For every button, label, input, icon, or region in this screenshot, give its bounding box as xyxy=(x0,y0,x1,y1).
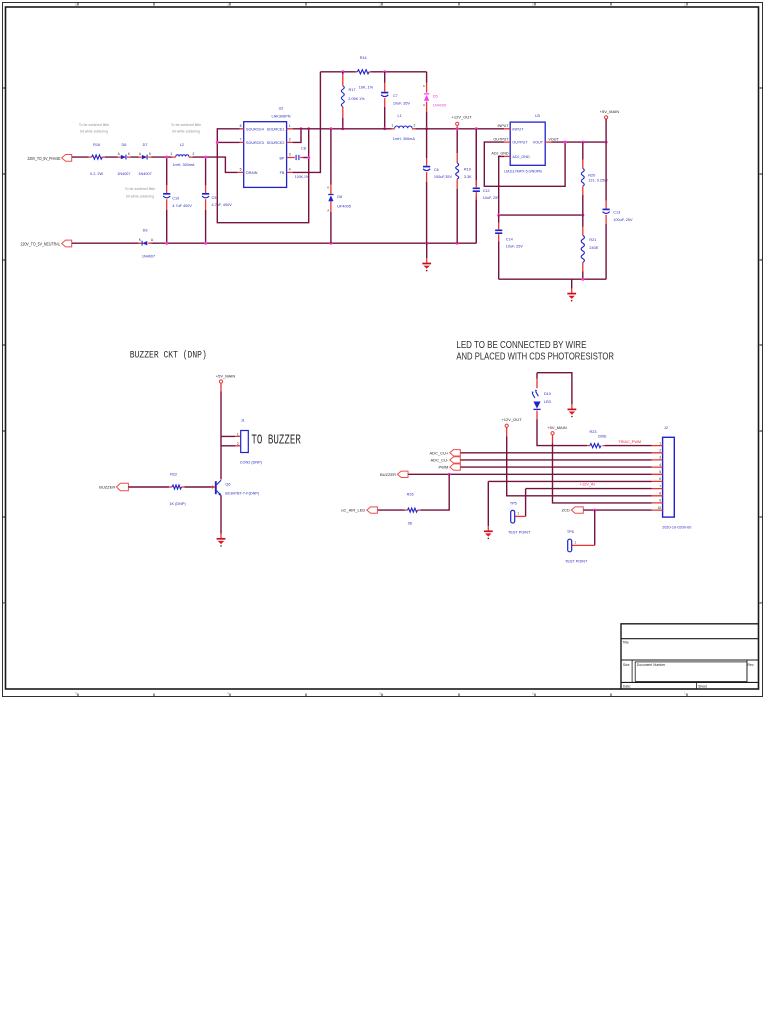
junction rail-C7 xyxy=(383,70,386,73)
svg-text:4.7uF, 400V: 4.7uF, 400V xyxy=(212,203,233,207)
junction C7 bottom xyxy=(383,127,386,130)
svg-text:2: 2 xyxy=(532,692,534,696)
wire led to r23 row xyxy=(537,420,652,446)
junction rail-R19 xyxy=(456,127,459,130)
capacitor C8 xyxy=(293,146,309,160)
svg-text:10K, 1%: 10K, 1% xyxy=(359,86,374,90)
svg-text:1: 1 xyxy=(517,512,519,516)
power +12V_OUT led section xyxy=(501,417,522,427)
resistor R22 xyxy=(169,473,186,506)
svg-text:2: 2 xyxy=(192,152,194,156)
capacitor C9 xyxy=(202,157,232,243)
svg-text:121, 0.25W: 121, 0.25W xyxy=(588,179,608,183)
port BUZZER led section xyxy=(380,471,408,477)
junction neutral-C9 xyxy=(204,242,207,245)
junction rail-R17 xyxy=(341,70,344,73)
resistor R26 xyxy=(405,493,421,526)
capacitor C13 xyxy=(603,142,633,279)
svg-text:C6: C6 xyxy=(434,168,439,172)
svg-text:OUTPUT: OUTPUT xyxy=(512,141,528,145)
svg-text:2: 2 xyxy=(237,442,239,446)
svg-text:3: 3 xyxy=(379,692,381,696)
svg-text:TEST POINT: TEST POINT xyxy=(508,531,531,535)
svg-text:1N4005: 1N4005 xyxy=(433,104,446,108)
svg-text:Size: Size xyxy=(623,663,630,667)
svg-text:3: 3 xyxy=(659,456,661,460)
svg-text:240E: 240E xyxy=(589,246,598,250)
svg-text:R23: R23 xyxy=(590,430,597,434)
junction source1-bp vertical xyxy=(307,127,310,130)
svg-text:3.3K: 3.3K xyxy=(464,175,472,179)
diode D5 xyxy=(423,72,446,129)
svg-text:D10: D10 xyxy=(544,392,551,396)
svg-text:K: K xyxy=(139,238,142,242)
svg-text:1K (DNP): 1K (DNP) xyxy=(169,502,186,506)
regulator U3 LM1117 xyxy=(491,114,559,174)
wire top rail xyxy=(320,71,426,73)
junction D5 bottom xyxy=(425,127,428,130)
svg-text:bit while soldering: bit while soldering xyxy=(172,129,200,133)
svg-text:C13: C13 xyxy=(613,210,620,214)
diode D6 xyxy=(117,143,131,176)
junction neutral-C10 xyxy=(165,242,168,245)
svg-text:DRAIN: DRAIN xyxy=(246,171,258,175)
svg-text:Sheet: Sheet xyxy=(698,684,707,688)
svg-text:1: 1 xyxy=(684,692,686,696)
svg-text:U3: U3 xyxy=(535,114,540,118)
svg-text:To be soldered little: To be soldered little xyxy=(125,187,155,191)
junction vout-C13 xyxy=(605,141,608,144)
svg-text:LM1117MPX-5.0/NOPB: LM1117MPX-5.0/NOPB xyxy=(504,170,542,174)
svg-text:D7: D7 xyxy=(143,143,148,147)
wire TP6 drop xyxy=(594,510,596,545)
svg-text:+5V_MAIN: +5V_MAIN xyxy=(600,109,620,114)
svg-text:K: K xyxy=(423,84,425,88)
resistor R19 xyxy=(456,129,472,243)
svg-text:5: 5 xyxy=(659,470,661,474)
svg-text:L2: L2 xyxy=(180,143,184,147)
svg-text:Document Number: Document Number xyxy=(637,663,666,667)
svg-text:LED: LED xyxy=(544,400,552,404)
svg-text:8: 8 xyxy=(240,124,242,128)
svg-text:R17: R17 xyxy=(349,88,356,92)
svg-text:10uF, 35V: 10uF, 35V xyxy=(393,102,411,106)
svg-text:OUTPUT: OUTPUT xyxy=(493,137,509,141)
junction neutral-R19 xyxy=(456,242,459,245)
capacitor C14 xyxy=(495,215,523,279)
ground led xyxy=(568,409,577,417)
svg-text:AND PLACED WITH CDS PHOTORESIS: AND PLACED WITH CDS PHOTORESISTOR xyxy=(456,352,614,363)
wire emitter down xyxy=(220,495,222,533)
svg-text:+5V_MAIN: +5V_MAIN xyxy=(216,373,236,378)
port ADC_CU- xyxy=(431,457,461,463)
svg-text:K: K xyxy=(327,185,329,189)
led D10 xyxy=(531,373,551,420)
wire source2 tie xyxy=(293,129,301,143)
wire PWM row xyxy=(461,466,652,468)
svg-text:5: 5 xyxy=(75,3,77,7)
wire neutral row xyxy=(72,129,476,243)
svg-text:Date:: Date: xyxy=(623,684,631,688)
junction R17 bottom xyxy=(341,127,344,130)
svg-text:R19: R19 xyxy=(464,167,471,171)
junction gndrail-R21 xyxy=(581,278,584,281)
svg-text:BC847BT-7-F(DNP): BC847BT-7-F(DNP) xyxy=(225,491,259,495)
svg-text:4: 4 xyxy=(227,692,229,696)
junction phase-C10 xyxy=(165,156,168,159)
port 220V_TO_5V_PHASE xyxy=(28,155,72,162)
svg-text:1mH, 300mA: 1mH, 300mA xyxy=(172,163,195,167)
junction rail-C12 xyxy=(475,127,478,130)
svg-text:+12V_IN: +12V_IN xyxy=(580,482,595,486)
junction adj-R20R21 xyxy=(581,214,584,217)
test point TP5 xyxy=(508,501,531,534)
svg-text:2: 2 xyxy=(532,3,534,7)
wire ADC_CU+ row xyxy=(461,452,652,454)
svg-text:+5V_MAIN: +5V_MAIN xyxy=(547,425,567,430)
svg-text:ZCD: ZCD xyxy=(562,508,570,513)
svg-text:+12V_OUT: +12V_OUT xyxy=(452,115,473,120)
junction neutral-D8 xyxy=(329,242,332,245)
svg-text:2: 2 xyxy=(289,138,291,142)
wire main 12V rail xyxy=(293,128,505,130)
power +5V_MAIN led section xyxy=(547,425,567,435)
svg-text:BP: BP xyxy=(279,156,284,160)
svg-text:BUZZER CKT (DNP): BUZZER CKT (DNP) xyxy=(130,350,207,362)
svg-text:1N4007: 1N4007 xyxy=(138,172,151,176)
junction phase-C9 xyxy=(204,156,207,159)
svg-text:1N4007: 1N4007 xyxy=(117,172,130,176)
svg-text:220V_TO_5V_NEUTRAL: 220V_TO_5V_NEUTRAL xyxy=(21,241,61,246)
port PWM xyxy=(439,464,461,470)
ground buzzer xyxy=(217,538,226,540)
power +5V_MAIN buzzer xyxy=(216,373,236,383)
inductor L1 xyxy=(391,114,415,141)
svg-text:Q6: Q6 xyxy=(225,483,230,487)
note soldering 3 xyxy=(125,187,155,198)
svg-text:1: 1 xyxy=(659,441,661,445)
svg-text:J1: J1 xyxy=(241,419,245,423)
svg-text:SOURCE4: SOURCE4 xyxy=(246,128,264,132)
resistor R14 xyxy=(356,56,372,74)
svg-text:100uF, 25V: 100uF, 25V xyxy=(613,218,633,222)
ground neutral rail xyxy=(422,243,431,271)
svg-text:TEST POINT: TEST POINT xyxy=(565,559,588,563)
port uC_AIR_LED xyxy=(341,507,377,513)
svg-text:A: A xyxy=(423,103,425,107)
svg-text:bit while soldering: bit while soldering xyxy=(126,194,154,198)
wire regulator ground rail xyxy=(499,278,606,280)
capacitor C7 xyxy=(381,72,410,129)
junction source3 xyxy=(216,141,219,144)
svg-text:FB: FB xyxy=(280,171,285,175)
wire J1 pin wires xyxy=(221,436,235,445)
svg-text:TRIAC_PWM: TRIAC_PWM xyxy=(618,440,641,444)
resistor R16 xyxy=(89,143,106,176)
port ADC_CU+ xyxy=(430,450,461,456)
svg-text:D6: D6 xyxy=(121,143,126,147)
svg-text:1: 1 xyxy=(391,124,393,128)
diode D9 xyxy=(139,229,156,259)
capacitor C6 xyxy=(423,129,453,243)
svg-text:8: 8 xyxy=(659,492,661,496)
svg-text:1: 1 xyxy=(237,432,239,436)
svg-text:R20: R20 xyxy=(588,173,595,177)
svg-text:3: 3 xyxy=(289,153,291,157)
diode D7 xyxy=(138,143,152,176)
ground regulator rail xyxy=(567,279,576,301)
test point TP6 xyxy=(565,530,595,563)
svg-text:C9: C9 xyxy=(212,196,217,200)
diode D8 xyxy=(327,129,351,243)
svg-text:7: 7 xyxy=(240,138,242,142)
svg-text:10: 10 xyxy=(657,506,661,510)
svg-text:1: 1 xyxy=(574,540,576,544)
resistor R23 xyxy=(587,430,607,448)
svg-text:R21: R21 xyxy=(589,238,596,242)
capacitor C12 xyxy=(473,129,501,243)
svg-text:220V_TO_5V_PHASE: 220V_TO_5V_PHASE xyxy=(28,156,61,161)
svg-text:5: 5 xyxy=(75,692,77,696)
resistor R17 xyxy=(341,72,373,129)
note soldering 2 xyxy=(171,123,201,134)
svg-text:U2: U2 xyxy=(279,106,284,110)
wire output sense loop xyxy=(484,142,565,186)
svg-text:6: 6 xyxy=(659,477,661,481)
wire source4-source3 loop xyxy=(217,129,308,223)
svg-text:ADC_CU-: ADC_CU- xyxy=(431,458,449,463)
svg-text:100K,1%: 100K,1% xyxy=(295,175,309,179)
svg-text:2020-10-0200-00: 2020-10-0200-00 xyxy=(662,525,691,529)
svg-text:+12V_OUT: +12V_OUT xyxy=(501,417,522,422)
svg-text:D9: D9 xyxy=(143,229,148,233)
svg-text:100uF,35V: 100uF,35V xyxy=(434,175,453,179)
port ZCD xyxy=(562,507,584,513)
svg-text:ADJ_GND: ADJ_GND xyxy=(512,155,530,159)
svg-text:VOUT: VOUT xyxy=(548,137,559,141)
svg-text:ADJ_GND: ADJ_GND xyxy=(491,152,509,156)
transistor Q6 xyxy=(212,480,260,496)
svg-text:SOURCE3: SOURCE3 xyxy=(246,141,264,145)
svg-text:D5: D5 xyxy=(433,94,438,98)
junction buzzer-R26 xyxy=(448,473,451,476)
svg-text:9: 9 xyxy=(659,499,661,503)
svg-text:1: 1 xyxy=(684,3,686,7)
svg-text:5: 5 xyxy=(240,168,242,172)
power +5V_MAIN regulator xyxy=(600,109,620,142)
wire adj_gnd xyxy=(499,156,583,215)
svg-text:TO BUZZER: TO BUZZER xyxy=(251,433,301,448)
junction vout-R20 xyxy=(581,141,584,144)
svg-text:To be soldered little: To be soldered little xyxy=(171,123,201,127)
border frame xyxy=(3,3,764,697)
ground J2 row xyxy=(484,530,493,532)
wire fb to feedback vertical xyxy=(293,72,321,173)
resistor R21 xyxy=(581,215,599,279)
resistor R20 xyxy=(581,142,608,215)
svg-text:C12: C12 xyxy=(483,189,490,193)
svg-text:R14: R14 xyxy=(360,56,367,60)
wire buzzer to R26 xyxy=(378,474,450,510)
svg-text:VOUT: VOUT xyxy=(533,141,544,145)
capacitor C10 xyxy=(163,157,192,243)
svg-text:INPUT: INPUT xyxy=(512,127,524,131)
svg-text:ADC_CU+: ADC_CU+ xyxy=(430,450,449,455)
svg-text:0.2, 2W: 0.2, 2W xyxy=(90,172,103,176)
svg-text:10uF, 25V: 10uF, 25V xyxy=(483,196,501,200)
svg-text:1mH, 300mA: 1mH, 300mA xyxy=(393,137,416,141)
connector J1 xyxy=(237,419,263,465)
svg-text:A: A xyxy=(327,208,329,212)
svg-text:4: 4 xyxy=(227,3,229,7)
junction vout-loop xyxy=(564,141,567,144)
svg-text:bit while soldering: bit while soldering xyxy=(80,129,108,133)
svg-text:SOURCE2: SOURCE2 xyxy=(267,141,285,145)
svg-text:R26: R26 xyxy=(407,493,414,497)
svg-text:A: A xyxy=(151,238,154,242)
wire BUZZER row xyxy=(408,473,651,475)
svg-text:Title: Title xyxy=(623,641,629,645)
junction source2-source1 xyxy=(300,127,303,130)
svg-text:4: 4 xyxy=(659,463,661,467)
svg-text:A: A xyxy=(118,152,121,156)
svg-text:C10: C10 xyxy=(172,196,179,200)
svg-text:10uF, 25V: 10uF, 25V xyxy=(506,244,524,248)
note soldering 1 xyxy=(79,123,109,134)
svg-text:C14: C14 xyxy=(506,237,513,241)
wire gnd row J2 pin6 xyxy=(488,481,651,526)
wire vout row xyxy=(551,141,606,143)
wire ADC_CU- row xyxy=(461,459,652,461)
svg-text:R22: R22 xyxy=(170,473,177,477)
svg-text:K: K xyxy=(128,152,131,156)
svg-text:2.05K 1%: 2.05K 1% xyxy=(348,97,365,101)
wire ZCD row J2 pin10 xyxy=(584,509,652,511)
power +12V_OUT xyxy=(452,115,473,129)
title block xyxy=(621,624,759,689)
svg-text:1: 1 xyxy=(170,152,172,156)
svg-text:R16: R16 xyxy=(93,143,100,147)
junction neutral-C6 xyxy=(425,242,428,245)
svg-text:3: 3 xyxy=(379,3,381,7)
svg-text:200E: 200E xyxy=(598,435,607,439)
svg-text:INPUT: INPUT xyxy=(498,124,510,128)
IC U2 LNK306PN xyxy=(238,106,293,187)
svg-text:C7: C7 xyxy=(393,94,398,98)
junction bp xyxy=(307,156,310,159)
svg-text:K: K xyxy=(149,152,152,156)
svg-text:C8: C8 xyxy=(301,146,306,150)
svg-text:4.7uF 400V: 4.7uF 400V xyxy=(172,204,192,208)
wire buzzer base row xyxy=(128,486,211,488)
svg-text:L1: L1 xyxy=(398,114,402,118)
title led note xyxy=(456,340,614,363)
svg-text:uC_AIR_LED: uC_AIR_LED xyxy=(341,508,365,513)
svg-text:LED TO BE CONNECTED BY WIRE: LED TO BE CONNECTED BY WIRE xyxy=(456,340,586,351)
wire buzzer collector vertical xyxy=(220,383,222,391)
svg-text:BUZZER: BUZZER xyxy=(99,485,115,490)
svg-text:Rev: Rev xyxy=(748,663,754,667)
wire phase row xyxy=(72,157,238,172)
junction rail-D8 xyxy=(329,127,332,130)
svg-text:1N4007: 1N4007 xyxy=(142,255,155,259)
svg-text:TP6: TP6 xyxy=(567,530,574,534)
junction adj-C14 xyxy=(497,214,500,217)
svg-text:0E: 0E xyxy=(408,522,413,526)
svg-text:J2: J2 xyxy=(664,426,668,430)
svg-text:7: 7 xyxy=(659,484,661,488)
wire +5V_MAIN to J2 pin9 xyxy=(552,435,554,444)
junction ZCD-TP6 xyxy=(593,509,596,512)
wire led top xyxy=(537,373,572,404)
port 220V_TO_5V_NEUTRAL xyxy=(21,240,72,247)
connector J2 xyxy=(652,426,692,529)
svg-text:D8: D8 xyxy=(337,195,342,199)
svg-text:SOURCE1: SOURCE1 xyxy=(267,128,285,132)
svg-text:UF4005: UF4005 xyxy=(337,204,351,208)
svg-text:To be soldered little: To be soldered little xyxy=(79,123,109,127)
svg-text:4: 4 xyxy=(289,168,291,172)
svg-text:PWM: PWM xyxy=(439,465,449,470)
wire +12V_OUT to J2 pin8 xyxy=(506,427,508,436)
svg-text:BUZZER: BUZZER xyxy=(380,472,396,477)
svg-text:2: 2 xyxy=(659,449,661,453)
svg-text:1: 1 xyxy=(289,124,291,128)
inductor L2 xyxy=(170,143,195,167)
svg-text:2: 2 xyxy=(413,124,415,128)
svg-text:LNK306PN: LNK306PN xyxy=(272,114,291,118)
svg-text:TP5: TP5 xyxy=(510,501,517,505)
svg-text:CON2 (DNP): CON2 (DNP) xyxy=(240,461,263,465)
port BUZZER dnp xyxy=(99,483,128,490)
wire +12V_IN row J2 pin7 xyxy=(526,489,652,517)
svg-text:A: A xyxy=(139,152,142,156)
